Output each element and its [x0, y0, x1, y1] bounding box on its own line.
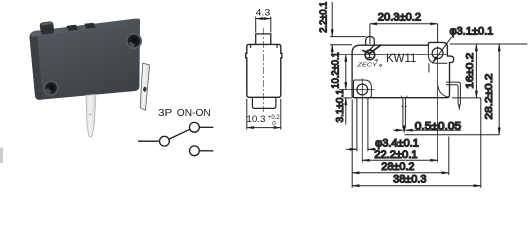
- hole centerline vertical (phi3.4): [361, 79, 363, 163]
- svg-text:38±0.3: 38±0.3: [393, 173, 426, 185]
- svg-text:KW11: KW11: [386, 53, 416, 65]
- svg-text:10.3: 10.3: [246, 114, 265, 124]
- svg-text:4.3: 4.3: [256, 7, 271, 17]
- svg-text:20.3±0.2: 20.3±0.2: [378, 12, 421, 24]
- dim 10.3: [247, 99, 281, 130]
- dim phi3.4 bottom: [346, 98, 376, 151]
- svg-text:22.2±0.1: 22.2±0.1: [374, 149, 417, 161]
- svg-text:10.2±0.1: 10.2±0.1: [329, 52, 341, 89]
- wire throw 1: [199, 126, 213, 128]
- svg-text:φ3.1±0.1: φ3.1±0.1: [450, 25, 494, 37]
- svg-text:16±0.2: 16±0.2: [464, 53, 476, 89]
- svg-text:ZECY: ZECY: [356, 63, 378, 69]
- svg-text:ON-ON: ON-ON: [177, 108, 211, 119]
- side rib left: [250, 44, 252, 47]
- hole boss top-right interior: [428, 45, 447, 63]
- dim 10.2 left: [345, 55, 347, 90]
- body top face strip (photo): [31, 19, 140, 37]
- terminal slot marks: [400, 96, 402, 98]
- side rib right: [276, 44, 278, 47]
- top face slot 2 (photo): [84, 23, 95, 29]
- dim 20.3 top: [370, 24, 438, 44]
- top face slot 1 (photo): [67, 25, 79, 31]
- hole centerline vertical (phi3.1): [437, 46, 439, 162]
- wire throw 2: [199, 150, 213, 152]
- hole top-right: [432, 48, 443, 59]
- dim 3.1 left: [344, 98, 353, 125]
- push button main view: [366, 37, 375, 46]
- svg-text:2.2±0.1: 2.2±0.1: [317, 1, 329, 32]
- svg-text:0.5±0.05: 0.5±0.05: [415, 120, 461, 132]
- metal terminal bottom (photo): [86, 94, 96, 137]
- hole centerline horizontal (phi3.4): [339, 89, 375, 91]
- terminal right L-shaped: [446, 82, 460, 111]
- dim 38 bottom: [352, 98, 481, 188]
- mounting hole top-right (photo): [126, 33, 142, 49]
- body left side shade (photo): [30, 31, 43, 100]
- dim 2.2 left: [330, 2, 366, 55]
- hole bottom-left: [357, 84, 368, 95]
- wire common left: [138, 140, 159, 142]
- side button: [256, 34, 271, 45]
- main body outline: [352, 42, 454, 97]
- hole boss bottom-left interior: [354, 80, 372, 98]
- svg-text:3.1±0.1: 3.1±0.1: [334, 89, 346, 123]
- dim 4.3: [256, 17, 271, 33]
- dim 28 bottom: [352, 100, 449, 188]
- centerline: [262, 28, 264, 112]
- dim 22.2 bottom: [362, 159, 437, 161]
- switch blade: [169, 129, 190, 139]
- svg-text:0: 0: [272, 120, 276, 127]
- node common pole: [160, 136, 170, 146]
- push button nub (photo): [40, 21, 54, 34]
- dim 0.5 terminal: [393, 129, 461, 131]
- interior rib below boss: [428, 63, 430, 72]
- dim 28.2 right: [405, 44, 500, 135]
- scan artifact strip left edge: [0, 148, 3, 164]
- dim phi3.1 leader: [432, 37, 451, 63]
- mounting hole bottom-left (photo): [43, 80, 58, 95]
- switch body (photo): [30, 19, 141, 100]
- metal terminal right (photo): [140, 63, 150, 110]
- svg-text:3P: 3P: [158, 108, 173, 119]
- interior curve bottom-right: [438, 86, 449, 98]
- terminal bottom-center: [402, 98, 407, 134]
- side bottom plug: [252, 97, 276, 108]
- dim 16 right: [450, 44, 528, 98]
- node throw 1: [190, 122, 200, 132]
- svg-text:φ3.4±0.1: φ3.4±0.1: [375, 137, 419, 149]
- side body outline: [246, 44, 282, 97]
- node throw 2: [190, 146, 200, 156]
- logo mark: [356, 45, 381, 69]
- svg-text:28±0.2: 28±0.2: [381, 161, 414, 173]
- svg-text:28.2±0.2: 28.2±0.2: [483, 73, 495, 119]
- hole centerline horizontal (phi3.1): [339, 54, 447, 56]
